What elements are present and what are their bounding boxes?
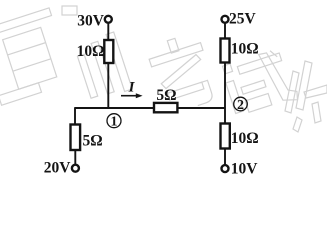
watermark (decorative background) <box>0 6 327 132</box>
svg-text:20V: 20V <box>44 160 72 177</box>
bus wire node1 to node2 <box>75 107 226 109</box>
wire R2 to 20V terminal <box>74 150 76 165</box>
wire bus corner down to R2 <box>74 107 76 125</box>
terminal 10V <box>222 165 229 172</box>
wire R4 through node2 to R5 <box>224 63 226 125</box>
wire R5 to 10V terminal <box>224 149 226 167</box>
resistor R1 10ohm left-top <box>104 40 113 63</box>
svg-text:10Ω: 10Ω <box>77 43 105 60</box>
svg-text:5Ω: 5Ω <box>83 133 103 150</box>
resistor R5 10ohm right-bottom <box>221 124 230 149</box>
svg-text:I: I <box>128 80 136 96</box>
terminal 20V <box>72 165 79 172</box>
resistor R4 10ohm right-top <box>221 39 230 63</box>
wire 30V terminal to R1 <box>107 23 109 41</box>
svg-text:25V: 25V <box>229 11 257 28</box>
node 1 marker <box>107 114 121 130</box>
resistor R3 5ohm middle <box>154 103 177 112</box>
svg-text:10V: 10V <box>231 161 258 178</box>
svg-text:10Ω: 10Ω <box>231 41 259 58</box>
wire 25V terminal to R4 <box>224 23 226 39</box>
svg-text:5Ω: 5Ω <box>156 87 176 104</box>
terminal 30V <box>105 16 112 23</box>
resistor R2 5ohm left-bottom <box>71 125 81 151</box>
current arrow I <box>121 93 143 98</box>
svg-text:1: 1 <box>111 115 118 130</box>
terminal 25V <box>222 16 229 23</box>
node 2 marker <box>234 97 248 113</box>
svg-text:30V: 30V <box>77 13 105 30</box>
wire R1 to node 1 <box>107 63 109 108</box>
svg-text:2: 2 <box>237 98 244 113</box>
svg-text:10Ω: 10Ω <box>231 130 259 147</box>
